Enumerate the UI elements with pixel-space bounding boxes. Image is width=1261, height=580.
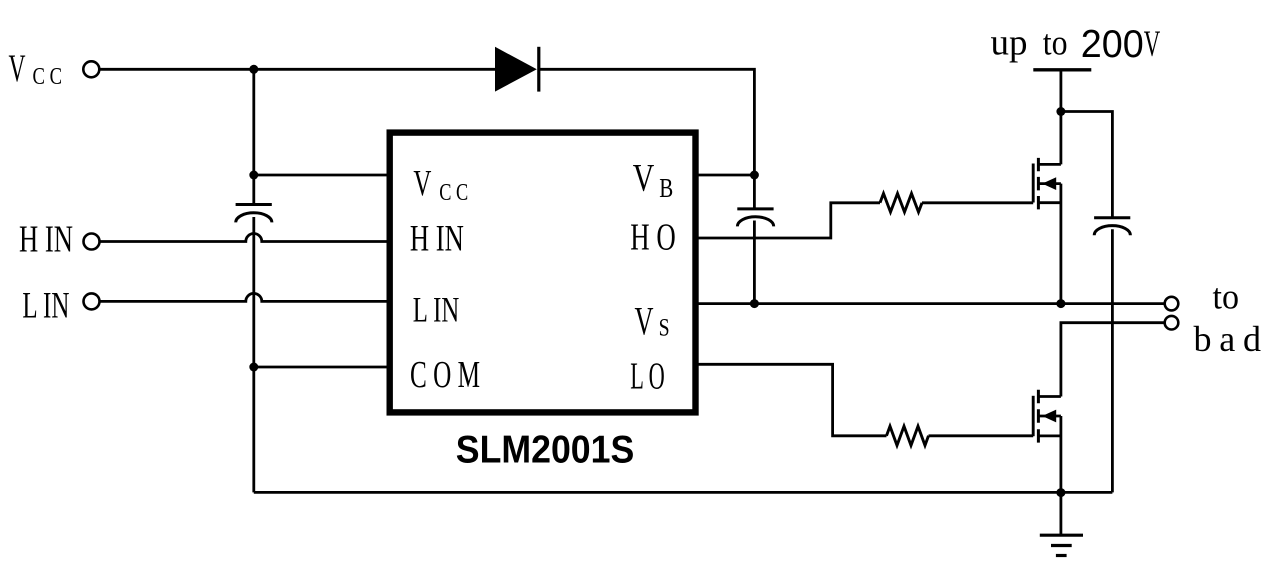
node VCC pin junction: [249, 171, 258, 180]
svg-text:L IN: L IN: [22, 286, 69, 327]
svg-text:200: 200: [1081, 23, 1144, 66]
pin label VCC: [413, 163, 468, 206]
terminal VCC: [83, 61, 99, 77]
svg-text:V: V: [413, 163, 431, 204]
svg-text:V: V: [1144, 24, 1161, 65]
capacitor C3 bus: [1094, 218, 1130, 236]
svg-text:V: V: [9, 47, 26, 90]
transistor Q1 high-side MOSFET: [1033, 158, 1061, 210]
svg-text:S: S: [659, 315, 670, 342]
wire HIN with hop: [101, 234, 393, 242]
svg-text:C C: C C: [33, 64, 63, 90]
wire Q2 drain to lower output terminal: [1061, 323, 1164, 397]
svg-text:B: B: [659, 173, 673, 203]
terminal output lower: [1165, 316, 1179, 330]
svg-text:L O: L O: [630, 356, 665, 398]
terminal HIN: [84, 234, 100, 250]
label VCC terminal: [9, 47, 63, 90]
ground: [1040, 535, 1083, 555]
svg-text:to: to: [1043, 23, 1068, 63]
wire diode cathode to corner: [540, 69, 754, 175]
transistor Q2 low-side MOSFET: [1033, 390, 1061, 443]
wire COM branch: [254, 366, 392, 369]
wire VS to output terminal: [694, 302, 1164, 305]
node VS bootstrap junction: [750, 299, 759, 308]
node VB junction: [750, 171, 759, 180]
wire left rail vertical: [252, 69, 255, 492]
wire LIN with hop: [101, 293, 393, 301]
wire supply rail down: [1060, 70, 1063, 165]
capacitor C2 bootstrap: [737, 209, 773, 227]
svg-text:C C: C C: [439, 179, 468, 206]
wire Q1 source down to VS: [1060, 184, 1063, 304]
wire VB pin: [694, 174, 754, 177]
capacitor C1 left: [236, 205, 272, 223]
svg-text:C O M: C O M: [410, 354, 480, 396]
node VS switch junction: [1056, 299, 1065, 308]
node ground junction: [1056, 488, 1065, 497]
svg-text:H O: H O: [630, 217, 676, 259]
svg-text:bad: bad: [1194, 319, 1261, 359]
node top rail junction: [249, 65, 258, 74]
wire VCC pin branch: [254, 174, 392, 177]
node COM junction: [249, 363, 258, 372]
wire HO to gate resistor R1 path: [694, 203, 1033, 238]
label up to 200V: [991, 22, 1161, 66]
svg-text:V: V: [633, 155, 655, 199]
svg-text:V: V: [635, 299, 654, 344]
svg-text:L IN: L IN: [413, 290, 460, 330]
node 200V junction: [1056, 107, 1065, 116]
wire VCC top rail: [101, 68, 496, 71]
pin label VS: [635, 299, 670, 344]
resistor R2: [887, 426, 929, 445]
pin label VB: [633, 155, 674, 203]
wire LO to gate resistor R2 path: [694, 364, 1033, 436]
supply rail bar 200V: [1033, 68, 1091, 71]
wire Q2 source to ground node: [1060, 416, 1063, 493]
terminal LIN: [84, 293, 100, 309]
svg-text:up: up: [991, 22, 1028, 63]
wire supply to bus cap: [1061, 112, 1113, 218]
wire bus cap bottom lead: [1111, 229, 1114, 492]
svg-text:to: to: [1213, 277, 1240, 317]
resistor R1: [880, 194, 922, 213]
wire ground stub: [1060, 493, 1063, 536]
wire bottom return rail: [254, 491, 1113, 494]
svg-text:SLM2001S: SLM2001S: [456, 429, 635, 472]
wire bootstrap cap leads: [753, 175, 756, 304]
terminal output upper: [1165, 297, 1179, 311]
IC U1 SLM2001S body: [390, 133, 696, 413]
diode D1: [495, 47, 539, 92]
svg-text:H IN: H IN: [19, 218, 73, 260]
svg-text:H IN: H IN: [410, 219, 464, 260]
